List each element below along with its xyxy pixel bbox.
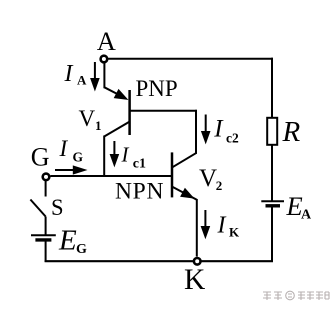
- svg-text:K: K: [229, 225, 240, 240]
- wire right upper: corner down to resistor: [271, 58, 273, 119]
- label IA: [64, 61, 88, 88]
- svg-text:NPN: NPN: [115, 179, 164, 205]
- arrow IA (anode current, points down): [90, 62, 100, 92]
- svg-text:c1: c1: [133, 156, 146, 171]
- transistor Q1 emitter lead with arrow (PNP arrow into base): [104, 87, 128, 100]
- wire right middle: resistor to battery EA: [271, 145, 273, 202]
- svg-text:I: I: [59, 136, 69, 161]
- svg-text:I: I: [217, 213, 227, 239]
- transistor Q2 emitter lead with arrow (NPN arrow out): [172, 187, 197, 200]
- node K circle: [194, 258, 201, 265]
- svg-text:A: A: [97, 26, 116, 56]
- svg-text:2: 2: [216, 178, 223, 193]
- wire bottom left: K node to bottom-left corner: [45, 260, 194, 262]
- battery EG short plate: [35, 238, 51, 241]
- wire V2 collector riser: [195, 110, 197, 154]
- wire left upper: switch top contact to G node: [45, 181, 47, 197]
- svg-text:c2: c2: [226, 130, 239, 145]
- svg-text:V: V: [79, 106, 96, 131]
- arrow Ic1 (points down): [110, 141, 120, 167]
- svg-text:G: G: [73, 150, 84, 165]
- label IG: [59, 136, 84, 165]
- wire right lower: battery to bottom-right corner: [271, 206, 273, 262]
- wire anode: A node down: [103, 63, 105, 88]
- svg-text:K: K: [184, 264, 205, 296]
- svg-text:A: A: [77, 73, 87, 88]
- label V2: [199, 165, 222, 193]
- svg-text:S: S: [51, 195, 64, 221]
- transistor Q1 (V1 PNP) base bar: [128, 90, 131, 135]
- wire left middle: battery EG up to switch: [45, 217, 47, 236]
- label Ic1: [121, 143, 147, 172]
- svg-text:PNP: PNP: [136, 76, 178, 101]
- battery EA long plate: [261, 200, 284, 202]
- battery EG long plate: [31, 234, 56, 236]
- label EG: [58, 225, 87, 258]
- label V1: [79, 106, 102, 133]
- svg-text:R: R: [282, 116, 301, 148]
- arrow Ic2 (points down): [201, 115, 211, 145]
- svg-text:I: I: [64, 61, 74, 87]
- label IK: [217, 213, 241, 240]
- transistor Q2 collector diagonal: [172, 153, 196, 168]
- watermark: [263, 291, 329, 300]
- wire bottom right: corner to K node: [201, 260, 273, 262]
- arrow IG (gate current, points right): [55, 165, 88, 174]
- arrow IK (cathode current, points down): [201, 210, 211, 239]
- svg-text:A: A: [301, 208, 312, 223]
- switch S blade: [30, 200, 45, 217]
- wire left lower: bottom-left corner up to battery EG: [45, 240, 47, 262]
- svg-text:G: G: [76, 242, 87, 257]
- wire top: A node to top-right corner: [107, 58, 274, 60]
- wire V2 emitter down to K node: [196, 199, 198, 257]
- wire gate: G node to NPN base: [50, 175, 171, 177]
- resistor R1 body: [267, 118, 277, 145]
- node G circle: [43, 174, 50, 181]
- svg-text:I: I: [121, 143, 130, 167]
- label EA: [286, 191, 313, 223]
- svg-text:E: E: [58, 225, 77, 257]
- wire V1 collector down to gate wire: [103, 136, 105, 177]
- transistor Q1 collector diagonal: [104, 122, 129, 137]
- wire V1 base to right: [130, 110, 197, 112]
- transistor Q2 (V2 NPN) base bar: [171, 152, 174, 197]
- node A circle: [101, 56, 108, 63]
- svg-text:1: 1: [95, 118, 102, 133]
- svg-text:V: V: [199, 165, 217, 192]
- battery EA short plate: [266, 204, 281, 207]
- label Ic2: [213, 116, 239, 146]
- svg-text:G: G: [31, 143, 50, 172]
